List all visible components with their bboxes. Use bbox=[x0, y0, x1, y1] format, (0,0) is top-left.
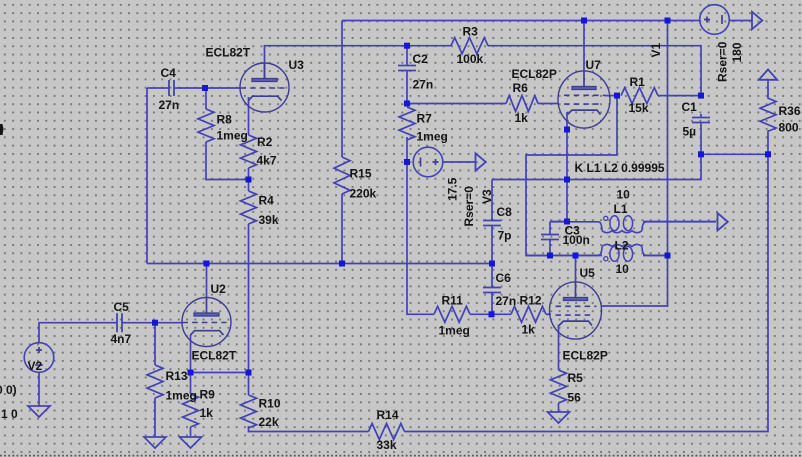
node junction 12 bbox=[564, 127, 570, 133]
svg-text:100n: 100n bbox=[563, 233, 590, 247]
node junction 14 bbox=[564, 219, 570, 225]
wire L1 right to flag bbox=[643, 221, 716, 223]
label 1meg (R8) bbox=[217, 129, 248, 143]
label 100n (C3) bbox=[563, 233, 590, 247]
wire C8 top corner bbox=[491, 180, 493, 221]
label V1 rotated bbox=[649, 42, 663, 57]
label K L1 L2 0.99995 bbox=[575, 161, 665, 175]
resistor R9 bbox=[183, 394, 199, 427]
flag L1 output bbox=[718, 213, 728, 230]
wire R8 bottom to R4 junction bbox=[206, 142, 249, 180]
label R36 bbox=[779, 104, 801, 118]
label 27n (C4) bbox=[159, 98, 180, 112]
resistor R11 bbox=[434, 306, 470, 322]
svg-text:U3: U3 bbox=[289, 58, 305, 72]
wire U5 cathode to R5 bbox=[558, 325, 560, 371]
label C2 bbox=[413, 52, 429, 66]
label R5 bbox=[568, 371, 584, 385]
resistor R3 bbox=[451, 38, 488, 54]
label R3 bbox=[463, 25, 479, 39]
label text fragment 1 0 bbox=[1, 407, 18, 421]
capacitor C5 bbox=[113, 313, 126, 332]
svg-text:R9: R9 bbox=[200, 388, 216, 402]
svg-text:U2: U2 bbox=[211, 282, 227, 296]
pentode U7 ECL82P bbox=[558, 70, 610, 128]
wire B+ down to U5 screen bbox=[601, 256, 668, 307]
voltage source V2 bbox=[24, 343, 54, 373]
svg-text:R10: R10 bbox=[259, 397, 281, 411]
wire L1 left stub bbox=[550, 221, 567, 223]
label C4 bbox=[161, 66, 177, 80]
wire C4 left stub bbox=[147, 87, 163, 89]
svg-text:27n: 27n bbox=[496, 294, 517, 308]
label R8 bbox=[217, 113, 233, 127]
svg-text:L2: L2 bbox=[615, 239, 629, 253]
wire V1 to output flag bbox=[729, 20, 752, 22]
svg-text:R1: R1 bbox=[630, 75, 646, 89]
svg-text:K L1 L2 0.99995: K L1 L2 0.99995 bbox=[575, 161, 665, 175]
label ECL82P (U7) bbox=[512, 67, 557, 81]
wire L2 node bbox=[526, 255, 602, 257]
wire R13 top bbox=[154, 323, 156, 365]
svg-text:R6: R6 bbox=[513, 81, 529, 95]
label C8 bbox=[497, 205, 513, 219]
label 27n (C6) bbox=[496, 294, 517, 308]
svg-text:R12: R12 bbox=[520, 294, 542, 308]
wire C2 bottom stub bbox=[406, 71, 408, 104]
wire R8 top bbox=[205, 88, 207, 109]
label R4 bbox=[259, 194, 275, 208]
wire V3 plus to flag bbox=[443, 161, 476, 163]
label 7p (C8) bbox=[498, 229, 512, 243]
label 56 (R5) bbox=[568, 391, 582, 405]
label C5 bbox=[114, 300, 130, 314]
wire U2 cathode down bbox=[190, 335, 192, 373]
svg-text:C6: C6 bbox=[496, 271, 512, 285]
svg-text:800: 800 bbox=[779, 121, 799, 135]
node junction 8 bbox=[204, 261, 210, 267]
triode U2 ECL82T bbox=[182, 297, 231, 347]
svg-text:1 0: 1 0 bbox=[1, 407, 18, 421]
label L2 bbox=[615, 239, 629, 253]
node junction 4 bbox=[202, 85, 208, 91]
label 39k (R4) bbox=[259, 213, 279, 227]
wire C4 left vertical bbox=[146, 88, 148, 264]
wire R1 to C1 node bbox=[658, 95, 701, 97]
resistor R6 bbox=[506, 96, 538, 112]
svg-text:27n: 27n bbox=[159, 98, 180, 112]
svg-text:ECL82T: ECL82T bbox=[206, 46, 251, 60]
svg-text:180: 180 bbox=[730, 42, 744, 62]
flag R36 top bbox=[759, 70, 777, 80]
resistor R10 bbox=[241, 395, 257, 428]
label 100k (R3) bbox=[457, 52, 484, 66]
node junction 24 bbox=[246, 370, 252, 376]
label 5u (C1) bbox=[683, 125, 697, 139]
node junction 6 bbox=[404, 159, 410, 165]
label R1 bbox=[630, 75, 646, 89]
svg-text:R4: R4 bbox=[259, 194, 275, 208]
wire R5 to ground bbox=[558, 403, 560, 412]
resistor R36 bbox=[760, 98, 776, 132]
label 180 (V1) rotated bbox=[730, 42, 744, 62]
inductor L1 bbox=[550, 216, 716, 233]
wire R15 bottom to lower rail bbox=[341, 194, 343, 264]
node junction 22 bbox=[152, 320, 158, 326]
capacitor C3 bbox=[541, 233, 559, 241]
node junction 11 bbox=[614, 93, 620, 99]
svg-text:1meg: 1meg bbox=[217, 129, 248, 143]
svg-text:1meg: 1meg bbox=[417, 130, 448, 144]
label R15 bbox=[350, 167, 372, 181]
node junction 3 bbox=[665, 18, 671, 24]
svg-text:39k: 39k bbox=[259, 213, 279, 227]
label C6 bbox=[496, 271, 512, 285]
label R2 bbox=[257, 135, 273, 149]
svg-text:C5: C5 bbox=[114, 300, 130, 314]
resistor R4 bbox=[241, 191, 257, 224]
node junction 9 bbox=[339, 261, 345, 267]
label ECL82T (U3) bbox=[206, 46, 251, 60]
svg-text:1meg: 1meg bbox=[166, 389, 197, 403]
svg-text:5µ: 5µ bbox=[683, 125, 697, 139]
node junction 2 bbox=[581, 18, 587, 24]
wire R11 to C6 junction bbox=[470, 313, 511, 315]
voltage source V3 bbox=[413, 147, 443, 177]
wire R10 top bbox=[248, 373, 250, 396]
label U5 bbox=[580, 266, 596, 280]
wire U7 cathode down bbox=[566, 112, 568, 222]
wire C4 to grid node bbox=[180, 87, 241, 89]
resistor R13 bbox=[147, 365, 163, 398]
label Rser=0 (V1) rotated bbox=[716, 41, 730, 82]
label 22k (R10) bbox=[259, 415, 279, 429]
svg-text:R2: R2 bbox=[257, 135, 273, 149]
wire V2 top to C5 bbox=[39, 323, 113, 343]
svg-text:R15: R15 bbox=[350, 167, 372, 181]
wire right side down bbox=[405, 154, 769, 431]
wire U7 plate lead bbox=[583, 21, 585, 72]
svg-text:15k: 15k bbox=[629, 101, 649, 115]
svg-text:1k: 1k bbox=[515, 111, 529, 125]
svg-text:ECL82P: ECL82P bbox=[512, 67, 557, 81]
label 1k (R12) bbox=[522, 323, 536, 337]
svg-text:10: 10 bbox=[616, 262, 630, 276]
label 33k (R14) bbox=[377, 438, 397, 452]
wire R14 left to R10 bbox=[249, 426, 369, 432]
triode U3 ECL82T bbox=[240, 63, 289, 113]
svg-text:R8: R8 bbox=[217, 113, 233, 127]
svg-text:1k: 1k bbox=[522, 323, 536, 337]
svg-text:ECL82P: ECL82P bbox=[563, 349, 608, 363]
wire R3 right to C1 top corner bbox=[488, 46, 701, 95]
label 1meg (R13) bbox=[166, 389, 197, 403]
wire C3 bottom lead bbox=[549, 239, 551, 256]
wire U5 plate lead bbox=[575, 256, 577, 283]
svg-text:17.5: 17.5 bbox=[446, 177, 460, 201]
ground V2 bbox=[28, 406, 50, 417]
label V3 rotated bbox=[480, 189, 494, 204]
resistor R2 bbox=[241, 135, 257, 168]
wire R4 bottom down to U2 cathode row bbox=[248, 224, 250, 373]
pentode U5 ECL82P bbox=[550, 281, 602, 339]
svg-text:1k: 1k bbox=[200, 406, 214, 420]
wire C8 to C6 bbox=[491, 225, 493, 287]
label 800 (R36) bbox=[779, 121, 799, 135]
resistor R15 bbox=[334, 157, 350, 194]
label 17.5 (V3) rotated bbox=[446, 177, 460, 201]
wire R7 bottom to V3 junction bbox=[406, 137, 408, 162]
label U2 bbox=[211, 282, 227, 296]
label U7 bbox=[586, 58, 602, 72]
svg-text:R3: R3 bbox=[463, 25, 479, 39]
svg-text:V1: V1 bbox=[649, 42, 663, 57]
node junction 1 bbox=[404, 43, 410, 49]
ground R9 bbox=[180, 437, 202, 448]
svg-text:22k: 22k bbox=[259, 415, 279, 429]
svg-text:27n: 27n bbox=[413, 78, 434, 92]
label text fragment 0 0) bbox=[0, 383, 17, 397]
svg-text:R7: R7 bbox=[417, 112, 433, 126]
svg-text:C8: C8 bbox=[497, 205, 513, 219]
label 1meg (R7) bbox=[417, 130, 448, 144]
wire U7 g2 to R1 junction bbox=[605, 95, 618, 97]
capacitor C4 bbox=[162, 80, 181, 96]
resistor R14 bbox=[369, 424, 405, 440]
label 1k (R6) bbox=[515, 111, 529, 125]
svg-text:R36: R36 bbox=[779, 104, 801, 118]
node junction 17 bbox=[665, 253, 671, 259]
svg-text:Rser=0: Rser=0 bbox=[462, 186, 476, 227]
wire L2 right to B+ bbox=[643, 255, 668, 257]
wire R36 top lead bbox=[767, 81, 769, 99]
wire C2 to R6 bbox=[407, 103, 506, 105]
label R10 bbox=[259, 397, 281, 411]
wire R6 to U7 grid bbox=[538, 103, 559, 105]
node junction 21 bbox=[489, 311, 495, 317]
node junction 13 bbox=[564, 177, 570, 183]
svg-text:R13: R13 bbox=[166, 369, 188, 383]
node junction 19 bbox=[698, 151, 704, 157]
label 10 (L1) bbox=[617, 188, 631, 202]
label 1k (R9) bbox=[200, 406, 214, 420]
wire V2 bottom bbox=[38, 372, 40, 406]
svg-text:C4: C4 bbox=[161, 66, 177, 80]
node junction 7 bbox=[246, 177, 252, 183]
wire R13 bottom bbox=[154, 398, 156, 436]
label C3 bbox=[565, 224, 581, 238]
capacitor C8 bbox=[483, 218, 501, 228]
capacitor C6 bbox=[483, 285, 501, 295]
wire R9 top bbox=[190, 373, 192, 395]
wire left drop from top rail to R15 bbox=[341, 21, 343, 158]
label R6 bbox=[513, 81, 529, 95]
node junction 23 bbox=[188, 370, 194, 376]
capacitor C2 bbox=[398, 66, 416, 71]
svg-text:C2: C2 bbox=[413, 52, 429, 66]
svg-text:L1: L1 bbox=[614, 202, 628, 216]
wire middle horizontal node bbox=[492, 154, 701, 179]
inductor L2 bbox=[526, 244, 668, 261]
wire R9 bottom bbox=[190, 427, 192, 436]
label R7 bbox=[417, 112, 433, 126]
label 1meg (R11) bbox=[439, 324, 470, 338]
label ECL82T (U2) bbox=[192, 349, 237, 363]
label L1 bbox=[614, 202, 628, 216]
label R9 bbox=[200, 388, 216, 402]
ground R13 bbox=[144, 437, 166, 448]
svg-text:U5: U5 bbox=[580, 266, 596, 280]
label 27n (C2) bbox=[413, 78, 434, 92]
label 220k (R15) bbox=[350, 187, 377, 201]
clipped text fragment at left edge bbox=[0, 124, 4, 135]
node junction 16 bbox=[573, 253, 579, 259]
wire C2 top stub bbox=[406, 46, 408, 66]
node junction 20 bbox=[765, 151, 771, 157]
label V2 bbox=[28, 359, 43, 373]
label R11 bbox=[442, 294, 464, 308]
label R14 bbox=[377, 408, 399, 422]
svg-text:R11: R11 bbox=[442, 294, 464, 308]
node junction 5 bbox=[404, 101, 410, 107]
wire B+ vertical bbox=[667, 21, 669, 256]
svg-text:100k: 100k bbox=[457, 52, 484, 66]
resistor R8 bbox=[198, 109, 214, 142]
wire lower long rail bbox=[147, 263, 492, 265]
node junction 10 bbox=[489, 261, 495, 267]
wire U3 plate to C2 node bbox=[265, 46, 452, 79]
svg-text:33k: 33k bbox=[377, 438, 397, 452]
flag V3 output bbox=[476, 153, 486, 170]
wire V3 junction down to R11 corner bbox=[407, 162, 434, 314]
svg-text:U7: U7 bbox=[586, 58, 602, 72]
wire R2 to R4 junction bbox=[248, 168, 250, 191]
voltage source V1 bbox=[700, 5, 730, 35]
label 10 (L2) bbox=[616, 262, 630, 276]
wire U3 cathode to R2 bbox=[248, 97, 250, 135]
svg-text:10: 10 bbox=[617, 188, 631, 202]
resistor R12 bbox=[511, 306, 546, 322]
svg-text:4n7: 4n7 bbox=[111, 332, 132, 346]
label 15k (R1) bbox=[629, 101, 649, 115]
output flag top right bbox=[752, 12, 762, 29]
label 4n7 (C5) bbox=[111, 332, 132, 346]
capacitor C1 bbox=[692, 114, 710, 126]
wire U2 cathode row bbox=[191, 372, 249, 374]
wire top B+ rail bbox=[342, 20, 700, 22]
svg-text:1meg: 1meg bbox=[439, 324, 470, 338]
wire R1 junction down and left (feedback) bbox=[526, 96, 617, 256]
svg-text:0 0): 0 0) bbox=[0, 383, 17, 397]
svg-text:4k7: 4k7 bbox=[257, 154, 277, 168]
resistor R7 bbox=[399, 107, 415, 140]
label R13 bbox=[166, 369, 188, 383]
svg-text:Rser=0: Rser=0 bbox=[716, 41, 730, 82]
resistor R5 bbox=[551, 370, 567, 403]
label 4k7 (R2) bbox=[257, 154, 277, 168]
svg-text:R5: R5 bbox=[568, 371, 584, 385]
darker bottom grid row bbox=[0, 455, 802, 457]
wire C1 bottom to R36 junction bbox=[701, 126, 768, 154]
wire R36 bottom lead bbox=[767, 132, 769, 155]
wire R12 to U5 grid bbox=[546, 313, 551, 315]
label ECL82P (U5) bbox=[563, 349, 608, 363]
label Rser=0 (V3) rotated bbox=[462, 186, 476, 227]
svg-text:7p: 7p bbox=[498, 229, 512, 243]
label R12 bbox=[520, 294, 542, 308]
svg-text:V3: V3 bbox=[480, 189, 494, 204]
svg-text:R14: R14 bbox=[377, 408, 399, 422]
label C1 bbox=[682, 100, 698, 114]
wire C3 top lead bbox=[549, 222, 551, 234]
resistor R1 bbox=[621, 88, 658, 104]
svg-text:220k: 220k bbox=[350, 187, 377, 201]
node junction 18 bbox=[698, 93, 704, 99]
wire U2 plate lead bbox=[206, 264, 208, 298]
svg-text:ECL82T: ECL82T bbox=[192, 349, 237, 363]
svg-text:V2: V2 bbox=[28, 359, 43, 373]
svg-text:56: 56 bbox=[568, 391, 582, 405]
wire C6 to R11/R12 junction bbox=[491, 292, 493, 314]
node junction 15 bbox=[547, 253, 553, 259]
label U3 bbox=[289, 58, 305, 72]
ground R5 bbox=[548, 412, 570, 423]
svg-text:C1: C1 bbox=[682, 100, 698, 114]
wire C5 to U2 grid bbox=[126, 322, 182, 324]
